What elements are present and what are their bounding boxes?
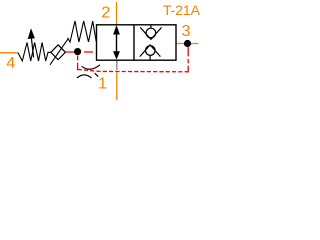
svg-text:1: 1: [98, 75, 107, 92]
svg-text:T-21A: T-21A: [163, 2, 200, 18]
svg-text:3: 3: [182, 23, 191, 40]
svg-text:2: 2: [101, 5, 110, 22]
svg-text:4: 4: [6, 55, 15, 72]
